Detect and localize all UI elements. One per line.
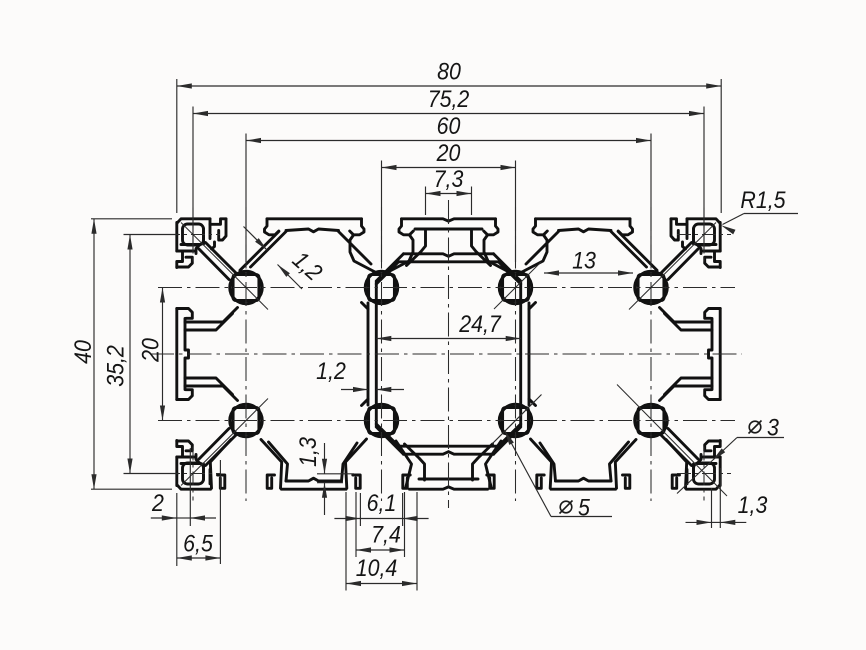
dim 1.3 right tail right bbox=[720, 521, 746, 523]
wire side face lower seg BL bbox=[175, 354, 178, 400]
wire top face inner center R bbox=[449, 228, 483, 231]
centerline hole v bbox=[192, 447, 194, 501]
wire top face mid seg L bbox=[267, 217, 362, 220]
dim 20 top line bbox=[382, 167, 516, 169]
dim 60 line bbox=[246, 140, 651, 142]
centerline axis TL bbox=[181, 223, 268, 310]
wire corner diag inner TL bbox=[199, 249, 229, 280]
dim 24.7 arrow right bbox=[506, 336, 521, 341]
svg-text:3: 3 bbox=[767, 415, 779, 442]
wire web flare BL bbox=[362, 399, 369, 406]
wire bot lip246 left L bbox=[218, 475, 225, 488]
wire lip m246 right L bbox=[265, 219, 279, 235]
wire bot mid diag left L bbox=[269, 442, 288, 481]
wire corner boss right wall outer TR bbox=[686, 224, 689, 238]
leader R1.5 underline bbox=[744, 213, 798, 215]
centerline hole v bbox=[703, 447, 705, 501]
dim 1.2 web arrow left bbox=[353, 387, 368, 392]
centerline hole h bbox=[166, 473, 220, 475]
dim 7.4 arrow left bbox=[356, 547, 371, 552]
dim 6.5 arrow left bbox=[177, 555, 192, 560]
leader R1.5 bbox=[723, 214, 745, 225]
wire side lip lower TR bbox=[705, 309, 721, 319]
wire top face center seg L bbox=[402, 219, 449, 221]
centerline hole h bbox=[677, 234, 731, 236]
wire corner boss bottom wall outer BR bbox=[703, 456, 715, 459]
wire bot lip381 left L bbox=[353, 475, 360, 488]
wire side lip lower TL bbox=[177, 309, 193, 319]
wire corner diag outer BL bbox=[206, 435, 237, 466]
wire side face lower seg TL bbox=[175, 309, 178, 355]
svg-text:6,5: 6,5 bbox=[183, 531, 213, 558]
dim 6.1 line bbox=[360, 518, 402, 520]
extline 60 right bbox=[650, 134, 652, 263]
leader O5 a bbox=[505, 431, 552, 517]
dim 75.2 arrow right bbox=[689, 111, 704, 116]
wire corner boss right wall inner TR bbox=[692, 229, 695, 245]
dim 80 arrow right bbox=[706, 83, 721, 88]
wire web inner BR bbox=[519, 354, 522, 426]
dim 20 top arrow right bbox=[501, 165, 516, 170]
dim 24.7 arrow left bbox=[376, 336, 391, 341]
wire bot center plate top R bbox=[449, 452, 494, 455]
wire side face upper seg BL bbox=[175, 457, 178, 486]
dim 2 arrow right bbox=[190, 515, 205, 520]
wire corner boss bottom wall inner BR bbox=[698, 462, 717, 465]
wire mid diag right L bbox=[339, 232, 372, 265]
extline 40 bottom bbox=[91, 488, 172, 490]
leader O5 underline bbox=[551, 516, 612, 518]
dim 13 arrow right bbox=[618, 270, 633, 275]
dim 1.3 right arrow right bbox=[720, 520, 735, 525]
extline 7.4 left bbox=[355, 492, 357, 557]
wire bottom face inner mid L bbox=[286, 478, 342, 481]
wire bottom face center seg L bbox=[410, 487, 449, 489]
hole circle boss 00 at 246.0,287.5 bbox=[230, 271, 262, 303]
hole square corner U4 BR bbox=[694, 463, 715, 484]
dim 6.1 tail right bbox=[403, 518, 429, 520]
extline 7.4 right bbox=[404, 492, 406, 557]
extline 6.1 right bbox=[402, 493, 404, 526]
dim 1.2 diag leader b bbox=[278, 265, 303, 290]
leader O3 underline bbox=[737, 437, 784, 439]
wire bot lip381 right R bbox=[487, 475, 494, 488]
wire center chamfer inner L bbox=[376, 262, 398, 284]
centerline col center bbox=[448, 200, 450, 508]
extline 80 left bbox=[176, 79, 178, 213]
wire bot wall381 left R bbox=[531, 439, 552, 488]
dim 10.4 line bbox=[346, 583, 417, 585]
svg-text:1,2: 1,2 bbox=[316, 358, 346, 385]
svg-text:7,3: 7,3 bbox=[434, 166, 464, 193]
wire bot center channel wall L bbox=[405, 444, 425, 480]
hole circle boss 11 at 381.5,420.5 bbox=[365, 404, 397, 436]
extline 75.2 left bbox=[192, 107, 194, 253]
dim 7.4 arrow right bbox=[390, 547, 405, 552]
wire bottom face mid seg R bbox=[551, 488, 616, 491]
wire side wall upper TL bbox=[196, 245, 200, 254]
dim 1.3 right line bbox=[712, 521, 721, 523]
extline 1.3r left bbox=[711, 488, 713, 528]
wire side lip lower BR bbox=[705, 390, 721, 400]
wire bot wall381 right R bbox=[486, 441, 502, 487]
svg-text:R1,5: R1,5 bbox=[740, 187, 786, 214]
wire bot mid diag right R bbox=[540, 443, 556, 481]
wire side shelf outer TR bbox=[660, 308, 713, 323]
wire bottom face corner seg R bbox=[687, 485, 720, 489]
wire corner boss bottom wall inner TL bbox=[181, 243, 200, 246]
centerline row middle bbox=[150, 353, 742, 355]
hole circle boss 20 at 515.5,287.5 bbox=[499, 271, 531, 303]
svg-text:75,2: 75,2 bbox=[428, 86, 470, 113]
dim 2 line bbox=[177, 517, 190, 519]
wire lip m246 left R bbox=[671, 219, 678, 240]
wire bot wall381 left L bbox=[346, 439, 367, 488]
leader O5 axis bbox=[492, 395, 542, 445]
dim 24.7 line bbox=[376, 338, 520, 340]
centerline axis TR bbox=[629, 223, 716, 310]
extline 20 left bbox=[381, 161, 383, 263]
svg-text:10,4: 10,4 bbox=[356, 555, 398, 582]
dim 60 arrow right bbox=[636, 138, 651, 143]
wire bot wall246 left L bbox=[210, 440, 231, 489]
wire top face notch L bbox=[210, 219, 226, 225]
wire side shelf outer BR bbox=[660, 386, 713, 401]
wire side face upper seg TR bbox=[719, 223, 722, 252]
wire bot center chamfer outer L bbox=[376, 427, 403, 454]
wire side shelf outer TL bbox=[185, 308, 238, 323]
wire side face notch BL bbox=[177, 441, 183, 458]
wire bot center channel wall R bbox=[473, 444, 493, 480]
wire corner boss bottom wall outer TL bbox=[183, 250, 195, 253]
wire bot lip381 left R bbox=[537, 475, 544, 488]
wire side shelf outer BL bbox=[185, 386, 238, 401]
dim 35.2 line bbox=[129, 235, 131, 474]
wire bot lip246 right L bbox=[267, 475, 274, 488]
dim 10.4 arrow left bbox=[346, 581, 361, 586]
svg-text:60: 60 bbox=[437, 113, 461, 140]
wire wall m381 right L bbox=[388, 235, 413, 272]
extline 1.3m top bbox=[317, 473, 354, 475]
wire lip m381 left L bbox=[350, 219, 364, 235]
centerline row top bbox=[158, 287, 735, 289]
wire bot mid diag right L bbox=[342, 443, 358, 481]
wire bot mid diag left R bbox=[610, 442, 629, 481]
wire web flare BR bbox=[529, 399, 536, 406]
wire wall m246 right R bbox=[618, 232, 657, 271]
extline 65 left bbox=[176, 493, 178, 566]
wire top face inner center L bbox=[415, 228, 449, 231]
wire corner diag outer TL bbox=[206, 243, 237, 274]
wire corner boss bottom wall outer TR bbox=[703, 250, 715, 253]
extline 75.2 right bbox=[703, 107, 705, 253]
wire side face lower seg TR bbox=[719, 309, 722, 355]
dim 1.3 mid arrow top bbox=[322, 459, 327, 474]
wire top face inner mid L bbox=[286, 229, 339, 232]
extline 7.3 right bbox=[471, 187, 473, 216]
wire side shelf inner TR bbox=[665, 314, 713, 331]
wire side face notch TR bbox=[715, 251, 721, 268]
wire center chamfer inner R bbox=[499, 262, 521, 284]
extline 65 right bbox=[219, 460, 221, 564]
wire center plate top R bbox=[449, 254, 494, 256]
centerline hole h bbox=[677, 473, 731, 475]
wire bottom face corner seg L bbox=[177, 485, 210, 489]
wire bottom face inner center L bbox=[419, 478, 449, 481]
wire center plate bottom L bbox=[399, 260, 449, 263]
svg-text:1,3: 1,3 bbox=[295, 437, 322, 467]
wire side wall upper TR bbox=[698, 245, 702, 254]
svg-text:40: 40 bbox=[70, 340, 97, 364]
dim 1.2 web tail right bbox=[376, 389, 404, 391]
dim 13 line bbox=[544, 272, 633, 274]
wire corner diag inner BR bbox=[668, 429, 698, 460]
wire bot center chamfer inner R bbox=[499, 424, 521, 446]
wire bot center plate bottom L bbox=[399, 445, 449, 448]
wire side wall upper BR bbox=[698, 455, 702, 464]
wire bot center plate top L bbox=[404, 452, 449, 455]
wire bot wall381 right L bbox=[396, 441, 412, 487]
extline 1.3m bottom bbox=[317, 482, 343, 484]
dim 35.2 arrow bottom bbox=[127, 459, 132, 474]
wire top face center seg R bbox=[449, 219, 496, 221]
dim 2 tail right bbox=[190, 517, 216, 519]
hole circle boss 21 at 515.5,420.5 bbox=[499, 404, 531, 436]
wire corner boss right wall inner TL bbox=[202, 229, 205, 245]
wire center chamfer outer R bbox=[494, 254, 521, 281]
centerline row bottom bbox=[158, 420, 735, 422]
svg-text:13: 13 bbox=[572, 248, 596, 275]
hole circle boss 10 at 381.5,287.5 bbox=[365, 271, 397, 303]
leader O3 bbox=[677, 438, 737, 494]
dim 10.4 arrow right bbox=[402, 581, 417, 586]
extline 60 left bbox=[245, 134, 247, 263]
wire side lip upper TR bbox=[705, 257, 721, 267]
wire web flare TR bbox=[529, 303, 536, 310]
wire corner boss right wall outer BL bbox=[209, 470, 212, 484]
wire side face upper seg BR bbox=[719, 457, 722, 486]
centerline axis BR bbox=[617, 385, 727, 497]
wire web inner TR bbox=[519, 282, 522, 354]
leader O5 arrow bbox=[505, 431, 514, 445]
centerline hole h bbox=[166, 234, 220, 236]
wire bottom face center seg R bbox=[449, 487, 488, 489]
dim 1.3 right tail left bbox=[686, 521, 712, 523]
dim 1.2 web tail left bbox=[341, 389, 368, 391]
wire side lip upper TL bbox=[177, 257, 193, 267]
boss square boss 21 at 515.5,420.5 bbox=[503, 408, 529, 434]
wire top face mid seg R bbox=[536, 217, 631, 220]
centerline col 246 bbox=[245, 207, 247, 501]
wire wall m381 right R bbox=[484, 235, 509, 272]
wire side wall inner BR bbox=[709, 354, 713, 390]
dim O5 slash bbox=[560, 501, 573, 514]
dim 6.1 tail left bbox=[334, 518, 360, 520]
dim 1.3 mid tail bottom bbox=[324, 483, 326, 515]
wire center plate top L bbox=[404, 254, 449, 256]
wire bot wall246 right L bbox=[261, 440, 282, 489]
extline 10.4 right bbox=[416, 492, 418, 591]
wire lip m246 left L bbox=[219, 219, 226, 240]
wire web outer TR bbox=[528, 303, 531, 354]
wire side face notch TL bbox=[177, 251, 183, 268]
wire corner boss right wall outer TL bbox=[209, 224, 212, 238]
wire bot lip381 right L bbox=[403, 475, 410, 488]
dim 20 left line bbox=[162, 288, 164, 421]
wire bot lip246 left R bbox=[672, 475, 679, 488]
wire bot center chamfer inner L bbox=[376, 424, 398, 446]
svg-text:35,2: 35,2 bbox=[103, 345, 130, 387]
dim 6.5 arrow right bbox=[205, 555, 220, 560]
dim O3 slash bbox=[749, 421, 762, 434]
centerline hole v bbox=[703, 208, 705, 262]
wire bot wall246 right R bbox=[615, 440, 636, 489]
hole square corner U1 TL bbox=[183, 224, 204, 245]
wire top face corner seg R bbox=[687, 219, 720, 223]
wire web outer TL bbox=[367, 303, 370, 354]
hole circle boss 01 at 246.0,420.5 bbox=[230, 404, 262, 436]
boss square boss 30 at 651.0,287.5 bbox=[638, 275, 664, 301]
dim 1.2 diag arrow b bbox=[278, 265, 290, 277]
wire side face lower seg BR bbox=[719, 354, 722, 400]
dim 2 arrow left bbox=[162, 515, 177, 520]
wire corner boss right wall inner BR bbox=[692, 464, 695, 480]
wire side lip upper BL bbox=[177, 441, 193, 451]
hole circle boss 31 at 651.0,420.5 bbox=[635, 404, 667, 436]
dim 1.2 web arrow right bbox=[376, 387, 391, 392]
boss square boss 20 at 515.5,287.5 bbox=[503, 275, 529, 301]
svg-text:24,7: 24,7 bbox=[458, 311, 502, 338]
dim 1.2 diag arrow a bbox=[255, 238, 267, 250]
centerline col 651 bbox=[650, 207, 652, 501]
wire web outer BL bbox=[367, 354, 370, 405]
dim 7.3 line bbox=[426, 193, 472, 195]
dim 40 line bbox=[93, 219, 95, 489]
wire web flare TL bbox=[362, 303, 369, 310]
dim 6.5 line bbox=[177, 557, 221, 559]
wire top face corner seg L bbox=[177, 219, 210, 223]
extline 7.3 left bbox=[425, 187, 427, 216]
wire corner boss bottom wall inner BL bbox=[181, 462, 200, 465]
dim 7.3 arrow left bbox=[426, 191, 441, 196]
wire center channel wall L bbox=[407, 229, 426, 266]
extline 1.3r right bbox=[719, 468, 721, 528]
dim 1.2 diag leader a bbox=[244, 227, 268, 251]
wire center chamfer outer L bbox=[376, 254, 403, 281]
boss square boss 00 at 246.0,287.5 bbox=[233, 275, 259, 301]
boss square boss 11 at 381.5,420.5 bbox=[369, 408, 395, 434]
wire web inner TL bbox=[375, 282, 378, 354]
extline 20 right bbox=[515, 161, 517, 263]
wire bot center plate bottom R bbox=[449, 445, 499, 448]
dim 75.2 arrow left bbox=[193, 111, 208, 116]
wire lip m381 right L bbox=[399, 219, 413, 235]
wire corner diag outer BR bbox=[661, 435, 692, 466]
wire wall m246 left R bbox=[683, 242, 686, 249]
wire corner boss right wall outer BR bbox=[686, 470, 689, 484]
dim 1.3 mid tail top bbox=[324, 443, 326, 474]
wire side shelf inner BR bbox=[665, 378, 713, 395]
svg-text:7,4: 7,4 bbox=[371, 522, 401, 549]
wire side lip upper BR bbox=[705, 441, 721, 451]
extline 35.2 top bbox=[124, 234, 180, 236]
wire corner boss right wall inner BL bbox=[202, 464, 205, 480]
dim 13 arrow left bbox=[544, 270, 559, 275]
wire side wall upper BL bbox=[196, 455, 200, 464]
dim 6.1 arrow left bbox=[345, 516, 360, 521]
svg-text:80: 80 bbox=[437, 59, 461, 86]
dim 20 left arrow bottom bbox=[160, 406, 165, 421]
centerline axis boss mid right bbox=[494, 262, 541, 309]
hole circle boss 30 at 651.0,287.5 bbox=[635, 271, 667, 303]
wire lip m381 right R bbox=[484, 219, 498, 235]
centerline col 381.5 bbox=[381, 207, 383, 501]
wire wall m381 left R bbox=[522, 235, 547, 272]
extline 2 right bbox=[189, 448, 191, 526]
wire bot wall246 left R bbox=[666, 440, 687, 489]
dim 60 arrow left bbox=[246, 138, 261, 143]
leader R1.5 arrow bbox=[721, 225, 736, 234]
extline 80 right bbox=[720, 79, 722, 213]
wire side face notch BR bbox=[715, 441, 721, 458]
wire side shelf inner BL bbox=[185, 378, 233, 395]
wire center plate bottom R bbox=[449, 260, 499, 263]
wire corner diag inner TR bbox=[668, 249, 698, 280]
boss square boss 10 at 381.5,287.5 bbox=[369, 275, 395, 301]
svg-text:5: 5 bbox=[578, 495, 590, 522]
svg-text:1,3: 1,3 bbox=[738, 492, 768, 519]
extline 6.1 left bbox=[359, 493, 361, 526]
wire side wall inner BL bbox=[185, 354, 189, 390]
dim O5 circle bbox=[560, 501, 572, 513]
wire bottom face mid seg L bbox=[282, 488, 347, 491]
dim 40 arrow bottom bbox=[91, 474, 96, 489]
wire web outer BR bbox=[528, 354, 531, 405]
wire corner boss bottom wall inner TR bbox=[698, 243, 717, 246]
boss square boss 31 at 651.0,420.5 bbox=[638, 408, 664, 434]
wire center channel wall R bbox=[472, 229, 491, 266]
wire side wall inner TL bbox=[185, 319, 189, 355]
extline 10.4 left bbox=[345, 492, 347, 591]
wire wall m246 right L bbox=[240, 232, 279, 271]
dim 1.3 right arrow left bbox=[697, 520, 712, 525]
svg-text:20: 20 bbox=[138, 338, 165, 363]
wire bottom face inner mid R bbox=[556, 478, 612, 481]
wire side wall inner TR bbox=[709, 319, 713, 355]
hole square corner U3 BL bbox=[183, 463, 204, 484]
wire mid diag right R bbox=[526, 232, 559, 265]
wire lip m246 right R bbox=[618, 219, 632, 235]
wire mid diag left L bbox=[251, 232, 287, 268]
wire mid diag left R bbox=[611, 232, 647, 268]
wire bot lip246 right R bbox=[623, 475, 630, 488]
leader O3 arrow bbox=[713, 448, 726, 460]
centerline col 515.5 bbox=[515, 207, 517, 501]
dim 20 top arrow left bbox=[382, 165, 397, 170]
wire lip m381 left R bbox=[533, 219, 547, 235]
dim 6.1 arrow right bbox=[403, 516, 418, 521]
wire corner boss bottom wall outer BL bbox=[183, 456, 195, 459]
extline 40 top bbox=[91, 218, 172, 220]
svg-text:20: 20 bbox=[436, 140, 461, 167]
dim 20 left arrow top bbox=[160, 288, 165, 303]
wire top face inner mid R bbox=[559, 229, 612, 232]
dim O3 circle bbox=[749, 421, 761, 433]
wire top face notch R bbox=[671, 219, 687, 225]
extline 35.2 bottom bbox=[124, 473, 180, 475]
dim 7.4 line bbox=[356, 549, 405, 551]
wire corner diag outer TR bbox=[661, 243, 692, 274]
